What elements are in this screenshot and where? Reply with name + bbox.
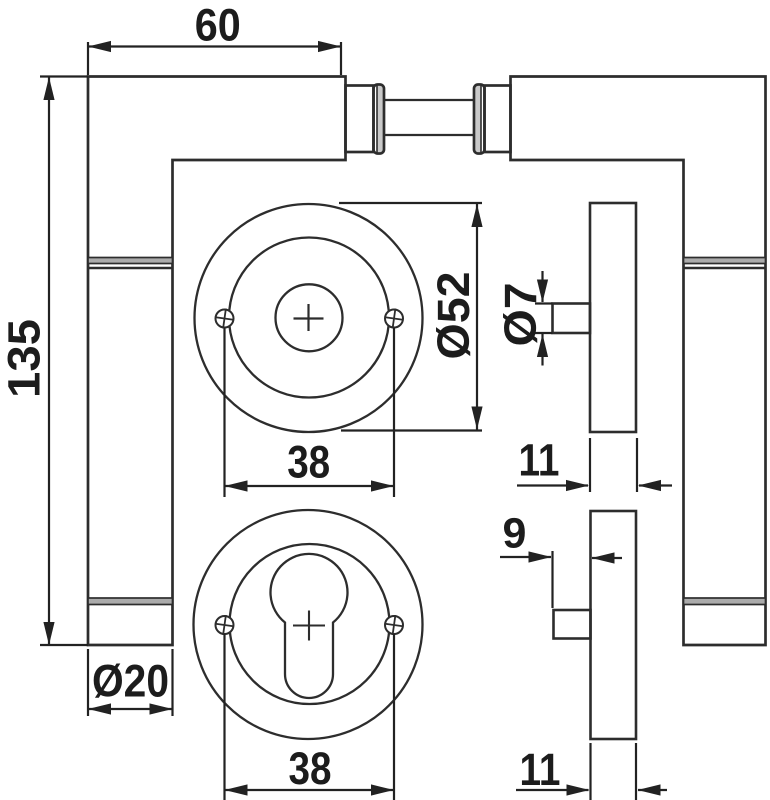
svg-text:Ø7: Ø7 — [495, 283, 546, 347]
60: extension lines — [87, 42, 89, 75]
O52: extension lines — [339, 202, 482, 204]
euro profile cutout — [271, 554, 348, 698]
bottom rosette (front, euro cylinder) — [194, 510, 423, 739]
svg-text:11: 11 — [519, 435, 560, 486]
135: extension lines — [40, 75, 88, 77]
right collar ring — [475, 86, 481, 152]
bottom rosette screws — [214, 614, 404, 636]
arrowheads — [43, 41, 661, 796]
side views of rosettes — [553, 203, 637, 739]
9: inner arrow shaft — [592, 557, 622, 559]
O52 top / bottom — [471, 204, 482, 227]
svg-text:9: 9 — [503, 510, 527, 558]
38 top left/right — [225, 480, 248, 491]
38 top: dimension line — [225, 485, 395, 487]
right neck lower joint — [684, 598, 766, 605]
top rosette (front) — [195, 204, 423, 432]
left spindle boss — [346, 86, 374, 153]
dimension texts — [0, 0, 561, 795]
svg-text:Ø20: Ø20 — [92, 656, 169, 707]
neck joint bands — [88, 258, 766, 605]
svg-text:38: 38 — [289, 743, 332, 794]
O7: dimension lines — [541, 271, 543, 302]
11 bottom: dimension lines — [516, 789, 589, 791]
left collar ring — [377, 86, 383, 152]
svg-text:135: 135 — [0, 319, 50, 398]
11 top: dimension lines — [517, 484, 588, 486]
top rosette screws — [214, 307, 404, 329]
left lever handle outline (front view) — [88, 77, 346, 646]
9: extension line — [551, 551, 553, 608]
135: dimension line — [48, 77, 50, 645]
135 top / bottom — [43, 77, 54, 100]
right lever handle outline (front view) — [511, 77, 766, 646]
38 top: extension lines — [223, 328, 225, 497]
svg-text:60: 60 — [195, 0, 241, 50]
60: dimension line — [88, 45, 341, 47]
left neck lower joint — [88, 598, 173, 605]
38 bottom left/right — [225, 784, 248, 795]
11 bottom: extension lines — [589, 743, 591, 800]
O7 down / up — [537, 280, 548, 303]
9 right-pointing / left-pointing — [529, 551, 552, 562]
9: dimension line — [500, 556, 551, 558]
svg-text:11: 11 — [520, 744, 561, 795]
38 bottom: dimension line — [225, 789, 395, 791]
11 top right-pointing / left-pointing — [566, 480, 589, 491]
svg-text:38: 38 — [287, 436, 330, 487]
60 left / right — [88, 41, 111, 52]
O20: dimension line — [88, 708, 173, 710]
svg-text:Ø52: Ø52 — [428, 272, 479, 360]
left neck upper joint — [88, 258, 173, 264]
11 top: extension lines — [589, 438, 591, 492]
spindle shaft — [384, 99, 474, 101]
right spindle boss — [485, 86, 511, 153]
O20 left/right — [88, 703, 111, 714]
O52: dimension line — [476, 204, 478, 430]
O7: extension lines — [535, 302, 553, 304]
11 bottom right-pointing / left-pointing — [567, 784, 590, 795]
O20: extension lines — [87, 649, 89, 716]
38 bottom: extension lines — [223, 634, 225, 800]
right neck upper joint — [684, 258, 766, 264]
